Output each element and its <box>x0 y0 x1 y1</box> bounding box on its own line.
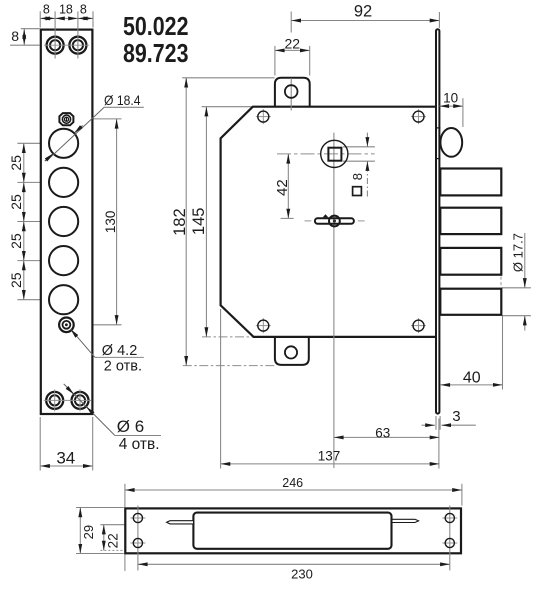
extension line 22 right <box>309 46 311 76</box>
extension line 3 right face <box>439 416 441 430</box>
hole right top <box>445 513 454 522</box>
extension line 29 top <box>76 507 124 509</box>
big circle 1 <box>49 129 78 158</box>
leader arrow d6 lower <box>86 407 93 414</box>
body screw top-right <box>413 111 424 122</box>
extension line square-8 top <box>343 146 375 148</box>
extension line 182 bottom (tab bottom) <box>183 365 275 367</box>
svg-text:130: 130 <box>103 211 118 234</box>
tab hole center line top <box>290 12 292 33</box>
top screw hole right: outer <box>69 37 86 54</box>
dimension chain 25 segment 1 <box>23 143 25 182</box>
svg-text:29: 29 <box>81 525 96 539</box>
label d18.4 underline <box>104 106 144 108</box>
dimension chain 25 segment 3 <box>23 222 25 261</box>
hole center line right <box>449 506 451 571</box>
bottom small hole outer <box>59 318 74 333</box>
svg-text:137: 137 <box>318 449 341 464</box>
extension line 145 top (body top) <box>202 106 253 108</box>
extension line 22 top (pin line) <box>100 524 167 526</box>
svg-text:22: 22 <box>106 533 121 548</box>
label d4.2 underline <box>95 356 144 358</box>
svg-text:8: 8 <box>43 3 50 17</box>
hole cross ticks left bottom <box>130 542 145 544</box>
dimension 40 <box>440 384 502 386</box>
body screw top-right cross <box>411 116 426 118</box>
bottom plate outline <box>125 508 461 553</box>
extension/center line top screw left <box>54 11 56 58</box>
big circle 5 <box>49 285 78 314</box>
extension line plate right edge (8-18-8) <box>92 11 94 27</box>
bolt hidden edge between bolt 3 and 4 <box>500 277 502 287</box>
dimension 182 <box>185 78 187 366</box>
svg-text:8: 8 <box>11 28 19 44</box>
dimension square-8 lower arrow <box>366 161 368 196</box>
dimension 10 <box>439 105 463 107</box>
leader arrow d6 upper <box>67 387 74 394</box>
extension line 40 right <box>502 316 504 390</box>
svg-text:Ø 17.7: Ø 17.7 <box>511 233 526 272</box>
body screw bottom-right <box>413 320 424 331</box>
extension line 246 right <box>461 484 463 506</box>
extension line 246 left <box>124 484 126 571</box>
dimension 230 <box>138 563 450 565</box>
leader arrow d18.4 lower <box>45 154 53 162</box>
dimension chain 25 segment 2 <box>23 182 25 221</box>
bottom tab hole <box>285 346 297 358</box>
body screw top-left <box>258 111 269 122</box>
top screw hole left: outer <box>47 37 64 54</box>
hole right bottom <box>445 538 454 547</box>
leader line d6 <box>64 384 115 436</box>
extension line top screws center <box>10 44 40 46</box>
dimension 145 <box>205 107 207 337</box>
extension line plate top edge <box>21 28 40 30</box>
extension line 63/137 right <box>438 419 440 469</box>
dimension 63 <box>334 436 440 438</box>
extension line 34 right <box>92 417 94 471</box>
top tab hole <box>285 85 298 98</box>
svg-text:8: 8 <box>350 173 365 180</box>
cross tick bottom screw left vertical <box>54 389 56 411</box>
bottom small hole inner <box>63 321 71 329</box>
dimension 92 <box>291 20 439 22</box>
extension line square-8 bottom <box>343 160 375 162</box>
svg-text:4 отв.: 4 отв. <box>119 436 160 453</box>
body screw top-left cross <box>256 116 271 118</box>
extension line 34 left <box>39 417 41 471</box>
extension line left of circle row 3 <box>17 221 48 223</box>
svg-text:25: 25 <box>8 194 24 210</box>
hole cross ticks right top <box>442 517 457 519</box>
big circle 4 <box>49 246 78 275</box>
extension line hex hole row (130 top) <box>54 118 122 120</box>
dimension 29 <box>79 508 81 554</box>
faceplate strip <box>436 29 439 413</box>
svg-text:2 отв.: 2 отв. <box>104 358 142 374</box>
svg-text:Ø 6: Ø 6 <box>117 417 144 436</box>
dimension 42 <box>287 154 289 219</box>
svg-text:89.723: 89.723 <box>123 39 188 67</box>
follower square hole <box>328 148 341 161</box>
keyhole slot <box>315 218 354 223</box>
svg-text:34: 34 <box>56 449 75 468</box>
hole cross ticks left top <box>130 517 145 519</box>
deadbolt 4 <box>440 289 501 315</box>
extension line 10 right <box>462 98 464 127</box>
dimension 3 left arrow <box>422 424 435 426</box>
follower vertical center line <box>333 133 335 468</box>
svg-text:3: 3 <box>452 408 460 425</box>
big circle 3 <box>49 207 78 236</box>
bottom mounting tab <box>275 336 309 365</box>
extension line 42 bottom <box>281 217 294 219</box>
center line of big circles <box>63 122 65 317</box>
hex nut hole inner circle <box>62 115 70 123</box>
bottom screw hole left: outer <box>46 392 63 409</box>
bottom screw hole left: inner <box>50 395 60 405</box>
tab hole center line through tab <box>290 78 292 111</box>
extension line d17.7 top <box>502 287 531 289</box>
top screw hole left: inner <box>50 40 60 50</box>
bottom screw hole right: inner <box>75 395 85 405</box>
extension line 182 top (tab top) <box>182 77 274 79</box>
right pin <box>393 519 419 522</box>
hole left bottom <box>133 538 142 547</box>
extension line d17.7 bottom <box>502 315 531 317</box>
svg-text:63: 63 <box>375 426 390 441</box>
extension line left of circle row 4 <box>17 260 48 262</box>
svg-text:25: 25 <box>8 272 24 288</box>
keyhole tooth <box>323 214 329 217</box>
svg-text:25: 25 <box>8 233 24 249</box>
center dash line circle row 5 <box>46 299 92 301</box>
dimension 18 (top middle segment) <box>55 17 78 19</box>
svg-text:50.022: 50.022 <box>123 12 188 40</box>
hex nut hole outline <box>59 113 73 125</box>
lock case (top view) <box>193 513 391 549</box>
dimension d17.7 lower arrow <box>524 316 526 331</box>
extension line left of circle row 2 <box>17 181 48 183</box>
svg-text:25: 25 <box>8 155 24 171</box>
bottom screw hole right: outer <box>72 392 89 409</box>
leader line d18.4 <box>47 107 105 161</box>
svg-text:145: 145 <box>190 208 208 236</box>
extension line plate left edge (8-18-8) <box>39 11 41 27</box>
deadbolt 3 <box>440 248 501 275</box>
label d6 underline <box>115 435 161 437</box>
keyhole center tick left <box>305 220 312 222</box>
svg-text:10: 10 <box>443 91 458 106</box>
body screw bottom-left <box>258 320 269 331</box>
extension line 22 bottom dotted <box>100 549 126 551</box>
leader line d4.2 <box>71 329 96 357</box>
cross tick bottom screw right vertical <box>79 389 81 411</box>
label square symbol <box>353 187 362 196</box>
center dash line circle row 4 <box>46 260 92 262</box>
svg-text:22: 22 <box>285 36 301 52</box>
extension line 22 left <box>274 46 276 76</box>
top mounting tab <box>275 78 310 108</box>
extension line 92 right <box>438 12 440 28</box>
keyhole boss <box>329 216 340 227</box>
body screw bottom-right cross <box>411 325 426 327</box>
center dash line circle row 1 <box>46 142 92 144</box>
left plate outline <box>41 30 93 414</box>
dimension 34 <box>40 465 92 467</box>
dimension 8 (top left segment) <box>40 17 55 19</box>
dimension square-8 upper arrow <box>366 133 368 147</box>
extension/center line top screw right <box>77 11 79 58</box>
dimension 130 <box>116 119 118 325</box>
hole cross ticks right bottom <box>442 542 457 544</box>
extension line left of circle row 5 <box>17 299 48 301</box>
bottom small hole dot <box>65 323 68 326</box>
big circle 2 <box>49 168 78 197</box>
extension line 145 bottom (body bottom) <box>202 336 254 338</box>
svg-text:42: 42 <box>274 179 291 196</box>
cross tick horizontal through top screws <box>44 44 89 46</box>
latch root tick bottom <box>437 158 440 160</box>
cross ticks bottom screws horizontal <box>44 399 91 401</box>
lock body outline <box>221 107 436 337</box>
follower horizontal center line <box>277 153 375 155</box>
svg-text:230: 230 <box>291 567 313 582</box>
svg-text:8: 8 <box>80 3 87 17</box>
svg-text:40: 40 <box>463 370 481 387</box>
deadbolt 2 <box>440 208 501 234</box>
keyhole center tick right <box>358 220 365 222</box>
hole left top <box>133 513 142 522</box>
keyhole boss dot <box>333 219 336 222</box>
svg-text:182: 182 <box>171 208 189 236</box>
leader arrow d18.4 upper <box>74 126 82 134</box>
dimension 137 <box>221 463 440 465</box>
dimension 22 bottom view <box>103 525 105 551</box>
svg-text:18: 18 <box>59 3 73 17</box>
svg-text:Ø 18.4: Ø 18.4 <box>104 92 141 108</box>
latch root tick top <box>437 127 440 129</box>
extension line left of circle row 1 <box>17 142 48 144</box>
dimension 8 (top right segment) <box>78 17 93 19</box>
center dash line circle row 2 <box>46 181 92 183</box>
extension line 29 bottom <box>76 553 124 555</box>
hole center line left <box>137 506 139 571</box>
hex nut hole center pin <box>64 117 68 121</box>
svg-text:92: 92 <box>354 3 372 21</box>
dimension 8 vertical left <box>23 29 25 45</box>
latch bolt <box>440 128 462 157</box>
dimension 22 top <box>275 49 310 51</box>
dimension d17.7 upper arrow <box>524 233 526 288</box>
follower circle <box>321 140 348 167</box>
body screw bottom-left cross <box>256 325 271 327</box>
deadbolt 1 <box>440 169 501 196</box>
center line of small holes <box>66 105 68 357</box>
dimension 246 <box>125 489 462 491</box>
extension line 3 left face <box>435 416 437 430</box>
dimension chain 25 segment 4 <box>23 261 25 300</box>
dimension 3 right arrow <box>442 424 476 426</box>
svg-text:Ø 4.2: Ø 4.2 <box>102 343 137 359</box>
extension line 137 left <box>220 309 222 469</box>
svg-text:246: 246 <box>282 476 303 490</box>
left pin <box>167 521 193 524</box>
extension line bottom small hole row (130 bottom) <box>55 324 122 326</box>
center dash line circle row 3 <box>46 221 92 223</box>
top screw hole right: inner <box>73 40 83 50</box>
